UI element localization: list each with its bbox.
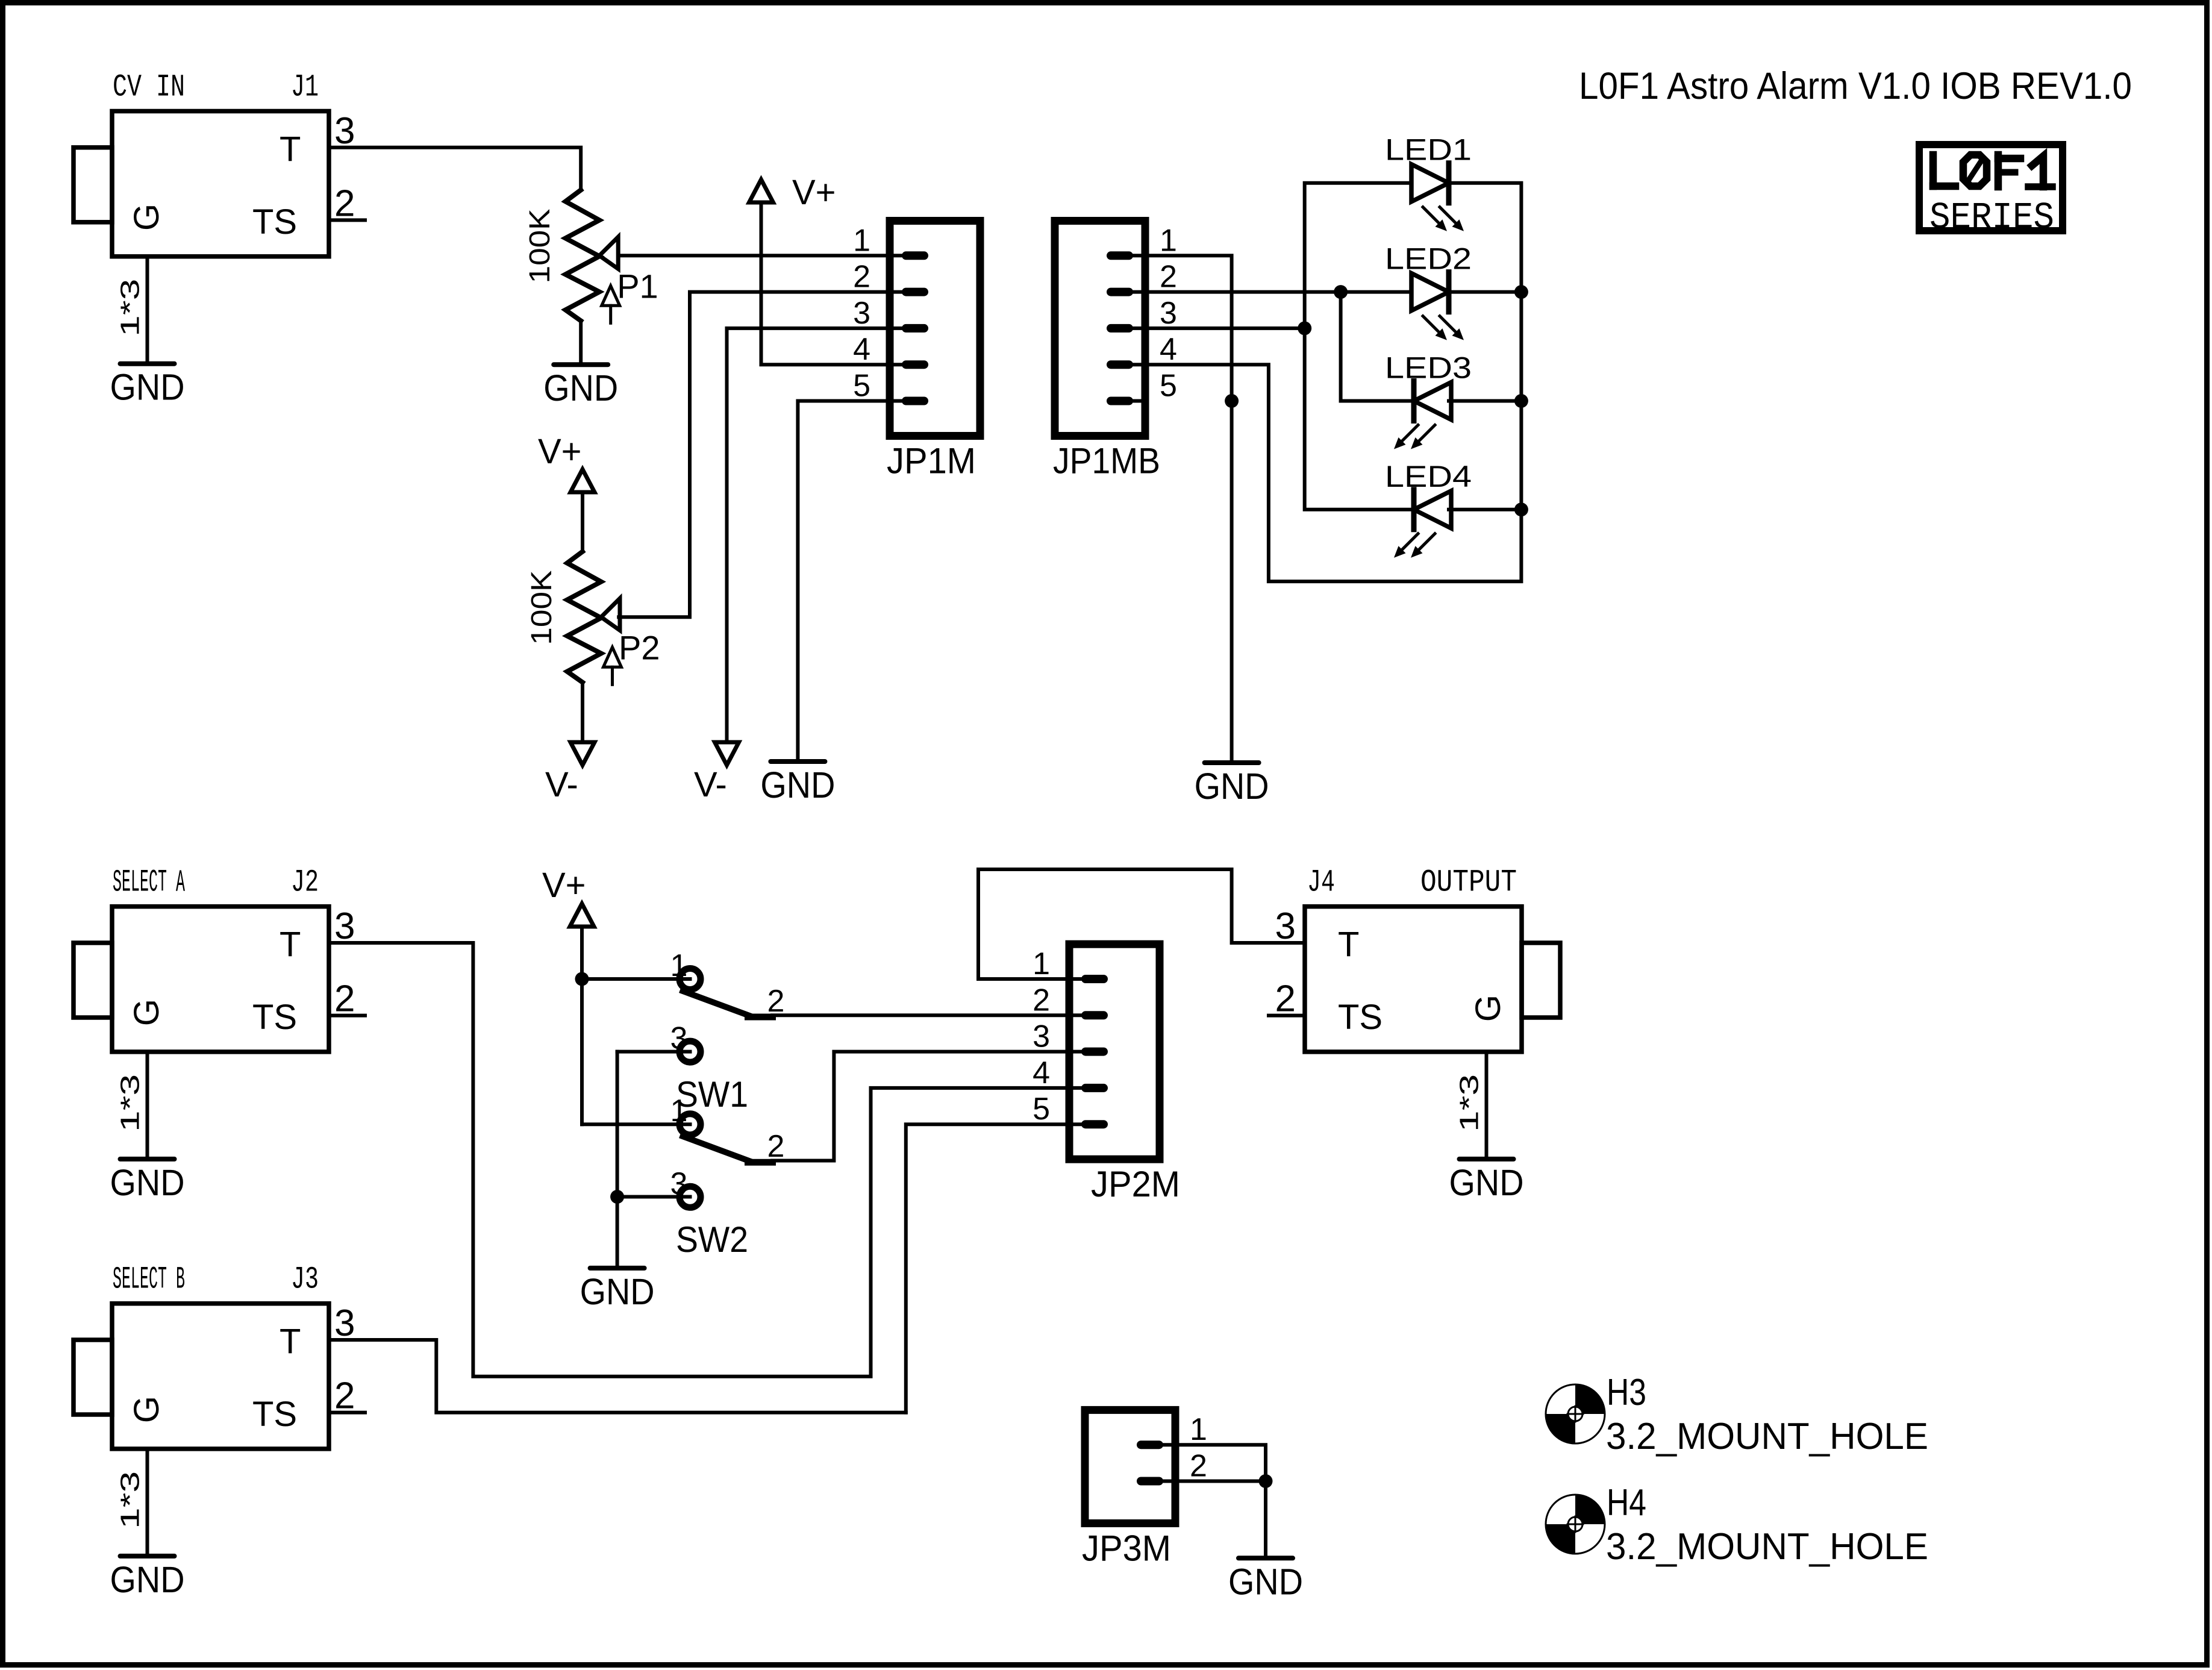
- svg-text:5: 5: [853, 369, 870, 404]
- svg-text:TS: TS: [252, 1395, 297, 1434]
- svg-text:3: 3: [1033, 1019, 1050, 1054]
- svg-text:5: 5: [1033, 1092, 1050, 1127]
- svg-text:G: G: [127, 204, 166, 231]
- svg-text:LED2: LED2: [1385, 242, 1472, 276]
- svg-text:TS: TS: [1338, 998, 1382, 1037]
- svg-text:H4: H4: [1607, 1482, 1646, 1524]
- svg-text:J1: J1: [291, 70, 319, 105]
- svg-text:J2: J2: [291, 865, 319, 901]
- svg-text:V-: V-: [694, 765, 727, 804]
- svg-text:G: G: [127, 1396, 166, 1423]
- svg-text:P1: P1: [617, 267, 658, 305]
- svg-text:3: 3: [334, 1303, 355, 1344]
- svg-text:100K: 100K: [524, 208, 556, 283]
- svg-text:3: 3: [1160, 296, 1177, 331]
- svg-text:3.2_MOUNT_HOLE: 3.2_MOUNT_HOLE: [1606, 1416, 1928, 1457]
- svg-text:4: 4: [1033, 1055, 1050, 1090]
- svg-text:V-: V-: [545, 765, 578, 804]
- svg-text:4: 4: [853, 332, 870, 367]
- svg-text:TS: TS: [252, 998, 297, 1037]
- svg-text:1: 1: [853, 223, 870, 258]
- svg-text:2: 2: [334, 1375, 355, 1417]
- svg-text:3: 3: [1275, 905, 1296, 947]
- svg-text:OUTPUT: OUTPUT: [1420, 865, 1517, 901]
- svg-text:2: 2: [1190, 1449, 1207, 1484]
- svg-text:GND: GND: [580, 1271, 655, 1312]
- svg-text:GND: GND: [110, 1162, 185, 1203]
- svg-text:P2: P2: [619, 628, 660, 666]
- svg-text:V+: V+: [792, 173, 836, 212]
- svg-text:T: T: [280, 1322, 301, 1362]
- svg-text:1*3: 1*3: [116, 279, 145, 337]
- svg-text:GND: GND: [543, 367, 618, 408]
- svg-text:JP2M: JP2M: [1091, 1164, 1180, 1204]
- svg-text:3: 3: [334, 110, 355, 152]
- svg-text:G: G: [1469, 995, 1508, 1022]
- svg-text:GND: GND: [1449, 1162, 1524, 1203]
- svg-text:100K: 100K: [526, 571, 558, 645]
- svg-text:V+: V+: [542, 866, 586, 905]
- svg-text:2: 2: [853, 260, 870, 295]
- svg-text:G: G: [127, 999, 166, 1026]
- svg-text:2: 2: [334, 978, 355, 1020]
- svg-text:TS: TS: [252, 202, 297, 242]
- svg-text:J4: J4: [1307, 865, 1335, 901]
- svg-text:1: 1: [1190, 1412, 1207, 1447]
- svg-text:2: 2: [334, 183, 355, 224]
- svg-text:LED3: LED3: [1385, 351, 1472, 385]
- svg-text:GND: GND: [110, 1559, 185, 1600]
- svg-text:2: 2: [1275, 978, 1296, 1020]
- svg-text:H3: H3: [1607, 1372, 1646, 1413]
- svg-text:1*3: 1*3: [116, 1074, 145, 1132]
- svg-text:1: 1: [1033, 946, 1050, 981]
- svg-text:T: T: [280, 130, 301, 169]
- svg-text:T: T: [1338, 925, 1359, 965]
- svg-text:CV IN: CV IN: [113, 70, 185, 105]
- svg-text:GND: GND: [1228, 1561, 1303, 1602]
- svg-text:2: 2: [1160, 260, 1177, 295]
- svg-text:2: 2: [1033, 983, 1050, 1018]
- svg-text:3: 3: [334, 905, 355, 947]
- svg-text:4: 4: [1160, 332, 1177, 367]
- svg-text:GND: GND: [1195, 766, 1269, 807]
- svg-text:1: 1: [1160, 223, 1177, 258]
- svg-text:JP3M: JP3M: [1082, 1528, 1171, 1569]
- svg-text:L0F1 Astro Alarm V1.0 IOB REV1: L0F1 Astro Alarm V1.0 IOB REV1.0: [1579, 65, 2132, 107]
- svg-text:JP1MB: JP1MB: [1053, 441, 1160, 481]
- svg-text:1: 1: [670, 948, 688, 983]
- svg-text:J3: J3: [291, 1262, 319, 1298]
- svg-text:3: 3: [853, 296, 870, 331]
- svg-text:LED1: LED1: [1385, 133, 1472, 167]
- svg-text:SW1: SW1: [676, 1074, 748, 1115]
- svg-text:V+: V+: [538, 432, 582, 471]
- svg-text:3.2_MOUNT_HOLE: 3.2_MOUNT_HOLE: [1606, 1526, 1928, 1568]
- svg-text:1*3: 1*3: [1455, 1074, 1484, 1132]
- svg-text:JP1M: JP1M: [887, 441, 976, 481]
- svg-text:1*3: 1*3: [116, 1471, 145, 1529]
- svg-text:GND: GND: [110, 367, 185, 408]
- svg-text:GND: GND: [760, 765, 835, 805]
- svg-text:T: T: [280, 925, 301, 965]
- svg-text:LED4: LED4: [1385, 460, 1472, 493]
- svg-text:5: 5: [1160, 369, 1177, 404]
- svg-text:SELECT B: SELECT B: [113, 1262, 185, 1298]
- svg-text:SELECT A: SELECT A: [113, 865, 185, 901]
- svg-text:SW2: SW2: [676, 1219, 748, 1260]
- svg-text:SERIES: SERIES: [1929, 196, 2054, 239]
